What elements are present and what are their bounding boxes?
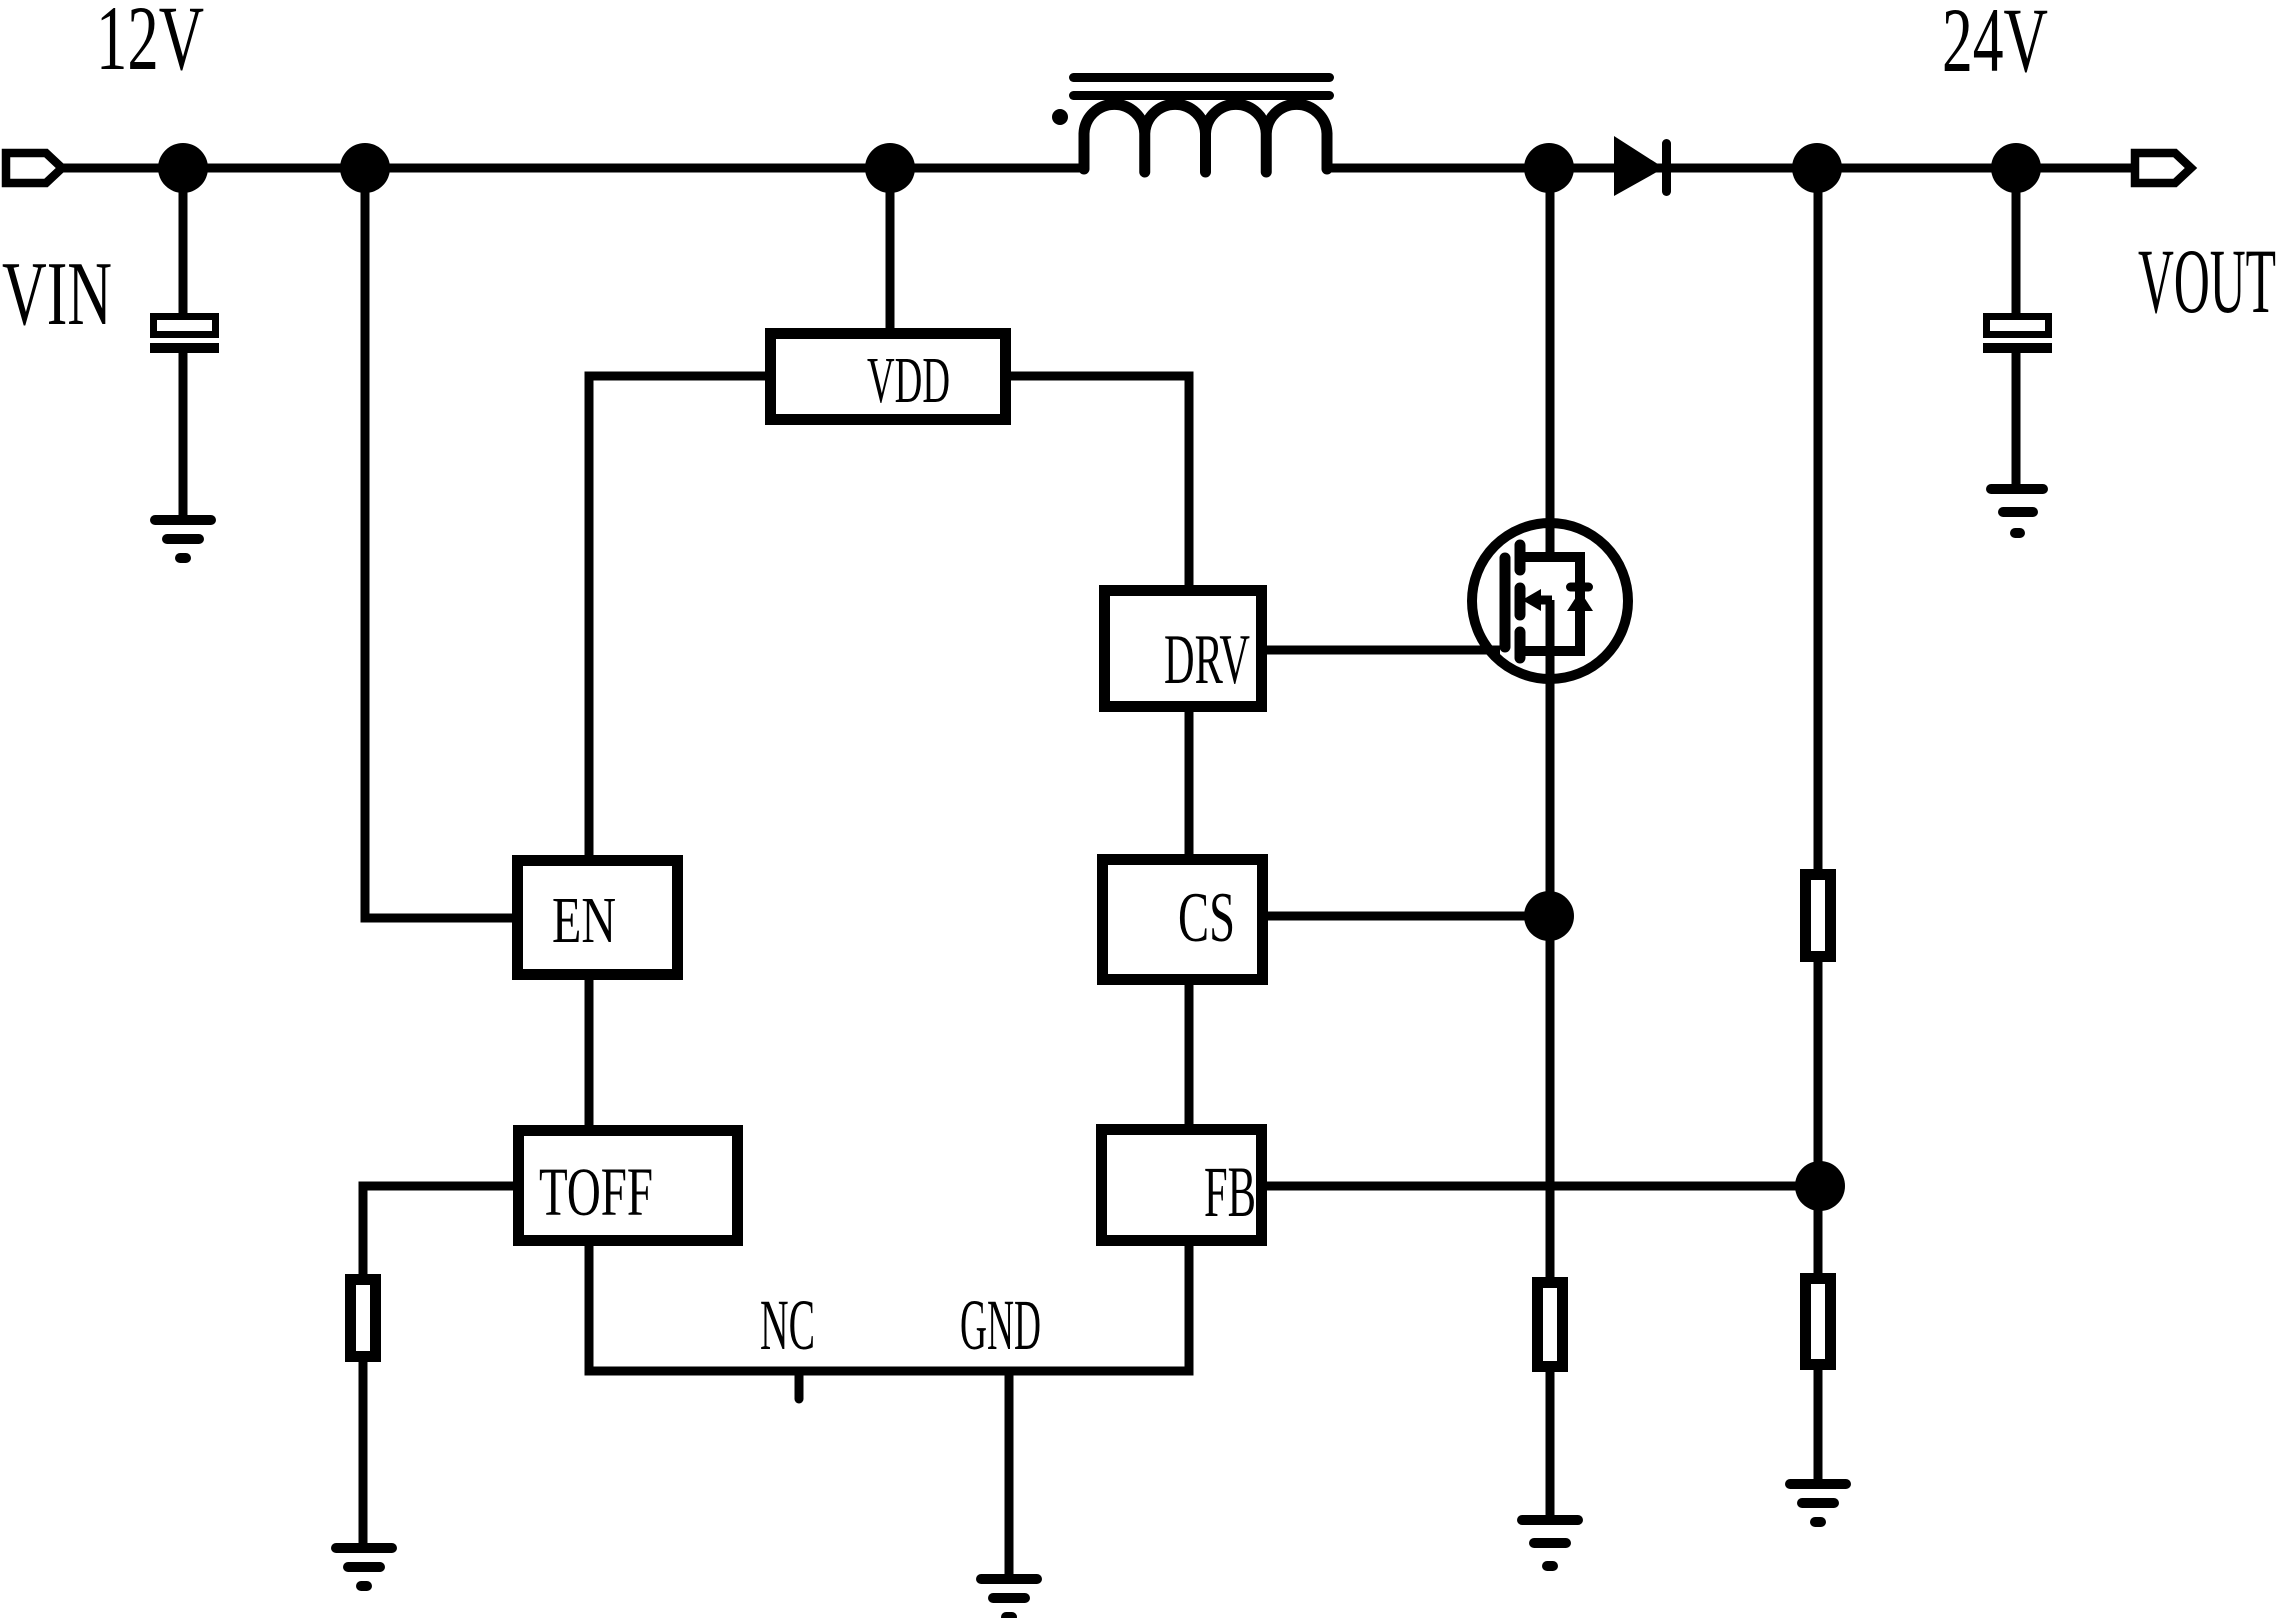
transistor Q1 body diode cathode bar <box>1571 583 1589 592</box>
wire: C2 bottom lead <box>2012 353 2021 484</box>
resistor R3 (divider upper) <box>1806 875 1831 957</box>
wire: C1 bottom lead <box>179 353 188 515</box>
junction: output divider tap node <box>1792 143 1842 193</box>
transistor Q1 source arrow line <box>1538 596 1552 605</box>
junction: switch node SW <box>1524 143 1574 193</box>
ground: below C1 <box>155 520 211 558</box>
capacitor C2 bottom plate <box>1983 343 2052 353</box>
junction: EN tap node <box>340 143 390 193</box>
junction: VDD tap node <box>865 143 915 193</box>
ground: below C2 <box>1991 489 2043 533</box>
svg-text:NC: NC <box>760 1285 815 1365</box>
svg-text:GND: GND <box>960 1285 1041 1365</box>
transistor Q1 channel bar segments <box>1515 545 1526 658</box>
junction: FB divider node <box>1795 1161 1845 1211</box>
wire: Q1 source down to CS node <box>1546 600 1555 916</box>
resistor R1 (TOFF) <box>351 1280 376 1357</box>
wire: GND pin drop <box>1005 1371 1014 1574</box>
wire: FB junction to R4 <box>1814 1186 1823 1273</box>
diode D1 anode triangle <box>1614 136 1664 196</box>
wire: EN tap down and right to EN box <box>365 168 512 918</box>
junction: CS sense node <box>1524 891 1574 941</box>
IC pin box DRV <box>1105 591 1262 707</box>
wire: R3 bottom to FB junction <box>1814 962 1823 1186</box>
pin NC stub <box>795 1371 804 1399</box>
transistor Q1 source arrowhead <box>1522 589 1541 611</box>
wire: VDD feed from top bus <box>886 168 895 328</box>
svg-text:VDD: VDD <box>867 344 950 417</box>
junction: input node at C1 <box>158 143 208 193</box>
svg-text:CS: CS <box>1178 879 1235 957</box>
svg-text:VIN: VIN <box>2 243 112 344</box>
wire: CS node to sense resistor R2 <box>1546 916 1555 1277</box>
output terminal arrow VOUT <box>2135 153 2191 183</box>
ground: below R2 <box>1522 1520 1578 1566</box>
wire: resistor R1 bottom lead <box>359 1362 368 1543</box>
resistor R4 (divider lower) <box>1806 1279 1831 1365</box>
IC pin box TOFF <box>519 1131 738 1241</box>
wire: TOFF left pin to resistor R1 <box>363 1186 513 1274</box>
IC pin box EN <box>518 861 678 975</box>
svg-text:DRV: DRV <box>1164 621 1250 699</box>
wire: top bus from input arrow to inductor <box>62 164 1084 173</box>
IC pin box FB <box>1102 1130 1262 1241</box>
capacitor C1 bottom plate <box>150 343 219 353</box>
wire: EN bottom to TOFF top link <box>585 980 594 1125</box>
inductor L1 core line 1 <box>1074 73 1330 82</box>
capacitor C1 top plate <box>154 317 216 335</box>
wire: C1 top lead <box>179 168 188 313</box>
ground: below R4 <box>1790 1484 1846 1522</box>
ground: below R1 <box>336 1548 392 1586</box>
wire: CS right pin to sense node <box>1268 912 1549 921</box>
wire: C2 top lead <box>2012 168 2021 313</box>
inductor L1 core line 2 <box>1074 91 1330 100</box>
ground: GND pin <box>981 1579 1037 1617</box>
wire: R2 bottom lead <box>1546 1372 1555 1515</box>
diode D1 cathode bar <box>1662 144 1671 192</box>
svg-text:TOFF: TOFF <box>539 1154 653 1230</box>
input terminal arrow VIN <box>6 153 62 183</box>
transistor Q1 drain/source/body connection path <box>1520 557 1580 651</box>
transistor Q1 gate bar <box>1500 558 1511 647</box>
wire: CS to FB link <box>1185 985 1194 1124</box>
svg-text:EN: EN <box>552 884 616 957</box>
wire: VDD right pin to DRV top link <box>1011 376 1189 585</box>
wire: divider top lead from output bus <box>1814 168 1823 869</box>
wire: Q1 drain from switch node <box>1546 168 1555 561</box>
svg-text:24V: 24V <box>1942 0 2048 91</box>
junction: output node at C2 <box>1991 143 2041 193</box>
inductor L1 phase dot <box>1052 109 1068 125</box>
IC pin box VDD <box>771 334 1006 420</box>
transistor Q1 body diode triangle <box>1567 591 1593 611</box>
transistor Q1 body circle <box>1472 523 1628 679</box>
svg-text:FB: FB <box>1204 1152 1256 1232</box>
wire: R4 bottom lead <box>1814 1370 1823 1479</box>
svg-text:12V: 12V <box>96 0 204 89</box>
wire: top bus from inductor to output arrow <box>1327 164 2135 173</box>
wire: TOFF bottom bus to FB bottom <box>589 1246 1189 1371</box>
wire: DRV to CS link <box>1185 712 1194 854</box>
resistor R2 (current sense) <box>1538 1283 1563 1367</box>
wire: DRV gate lead to Q1 <box>1267 646 1500 655</box>
IC pin box CS <box>1103 860 1263 980</box>
capacitor C2 top plate <box>1987 317 2049 335</box>
svg-text:VOUT: VOUT <box>2138 230 2276 332</box>
inductor L1 winding <box>1084 104 1327 172</box>
wire: FB right pin to divider junction <box>1267 1182 1820 1191</box>
wire: VDD left pin to EN top link <box>589 376 765 855</box>
